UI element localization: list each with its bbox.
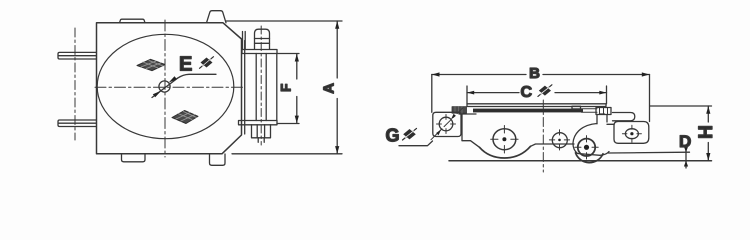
diamond marker 2 (hatched) [172,111,198,124]
E phi symbol (diamond with slash) [200,57,214,69]
left rail clamp block [452,107,467,114]
G phi symbol [403,128,417,140]
left pin bottom [58,120,96,127]
left bracket plate [433,112,461,136]
bracket hole right [622,125,641,142]
body outline [97,23,242,154]
F dimension [277,54,299,124]
B dimension [432,65,650,122]
bottom flange (washer) [239,121,278,125]
svg-text:H: H [696,125,717,139]
wheel 3 arc (touches rail bottom) [576,153,604,163]
dark clamp band [473,109,583,113]
svg-text:B: B [529,65,540,82]
diamond marker 1 (hatched) [137,59,165,70]
hub wheel 1 [491,126,518,154]
side plate top edge (under band) [459,113,605,115]
A dimension [226,21,342,154]
svg-text:D: D [679,132,691,151]
ground / rail bottom line [449,160,712,162]
small vertical tab above top flange [243,32,246,50]
E diameter leader through hub [152,74,216,97]
bottom tab left [122,154,146,162]
side plate left edge [461,114,463,141]
C dimension [467,84,607,104]
fork bottom slope line [609,151,690,154]
bolt shaft [256,54,266,121]
wheel 1 arc [480,146,531,158]
G diameter diagonal leader [399,108,463,146]
top nut (dome) [255,29,270,49]
bottom tab right [210,154,226,165]
caster neck [597,115,607,124]
vertical centerline of left view [164,20,166,157]
wheel 3 hub [575,136,598,159]
main ellipse (wheel face) [97,34,234,138]
svg-text:A: A [320,83,337,94]
horizontal centerline of left view [95,86,243,88]
H dimension [650,106,717,161]
caster body outline [573,124,609,156]
top flange (washer) [242,50,277,54]
svg-text:F: F [279,84,294,92]
svg-text:C: C [521,84,533,101]
center hub circle [159,81,170,92]
top tab right [207,11,227,23]
bottom edge mid [531,144,575,146]
hub wheel 2 [549,130,569,150]
left bracket hole [437,115,456,134]
bottom shaft stub [258,138,264,143]
swing bracket plate [614,122,649,144]
caster arm to bracket [607,123,614,125]
side plate bottom-left profile [462,141,480,148]
rail end clamp with hatch [596,108,611,115]
svg-text:G: G [386,125,400,145]
clamp channel verticals [244,41,246,135]
C phi symbol [539,86,551,96]
vertical dash-dot centerline of right view [542,100,544,172]
left pin top [58,52,96,59]
D dimension [679,132,691,168]
bolt centerline [260,26,262,145]
svg-text:E: E [179,54,192,76]
rail plate (thin top plate) [467,104,606,107]
vertical dash-dot line through pins [74,28,76,140]
rounded lug right of rail end [613,113,635,121]
bottom nut [252,125,271,138]
top tab left [120,19,146,23]
